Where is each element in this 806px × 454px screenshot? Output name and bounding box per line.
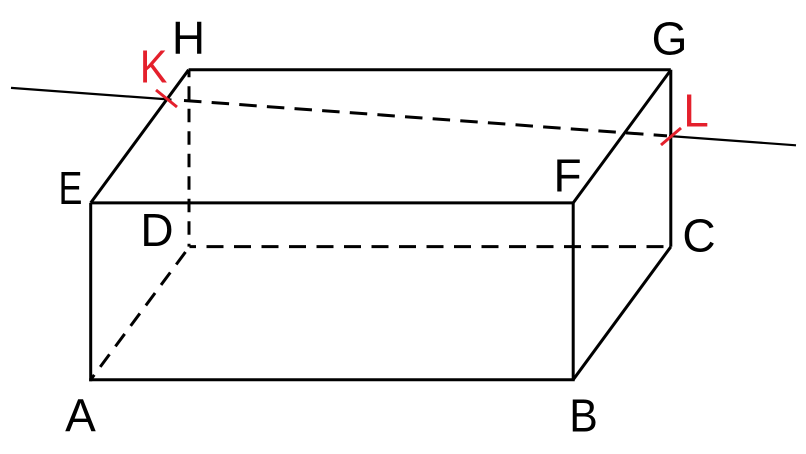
svg-text:D: D xyxy=(140,204,173,256)
edge GC xyxy=(669,70,672,247)
tick mark at K (red) xyxy=(156,90,177,107)
hidden edge DC (dashed) xyxy=(190,245,671,248)
edge FG xyxy=(573,70,671,203)
line through K, left solid segment xyxy=(11,88,172,100)
svg-text:H: H xyxy=(172,12,205,64)
edge EF xyxy=(91,201,574,204)
svg-text:G: G xyxy=(652,13,688,65)
hidden edge AD (dashed) xyxy=(91,247,190,380)
svg-text:C: C xyxy=(682,210,715,262)
hidden edge HD (dashed) xyxy=(188,70,191,247)
tick mark at L (red) xyxy=(661,128,681,145)
edge BC xyxy=(573,247,671,380)
svg-text:L: L xyxy=(683,85,709,137)
edge HG xyxy=(189,68,671,71)
svg-text:A: A xyxy=(65,390,96,442)
edge AE xyxy=(89,203,92,381)
svg-text:B: B xyxy=(569,391,598,442)
edge AB xyxy=(89,378,575,381)
svg-text:E: E xyxy=(59,163,83,214)
edge EH xyxy=(91,70,189,203)
edge BF xyxy=(572,203,575,380)
line through L, right solid segment xyxy=(669,136,796,145)
svg-text:F: F xyxy=(553,150,581,202)
svg-text:K: K xyxy=(140,42,168,94)
segment KL inside solid (dashed) xyxy=(184,101,667,136)
